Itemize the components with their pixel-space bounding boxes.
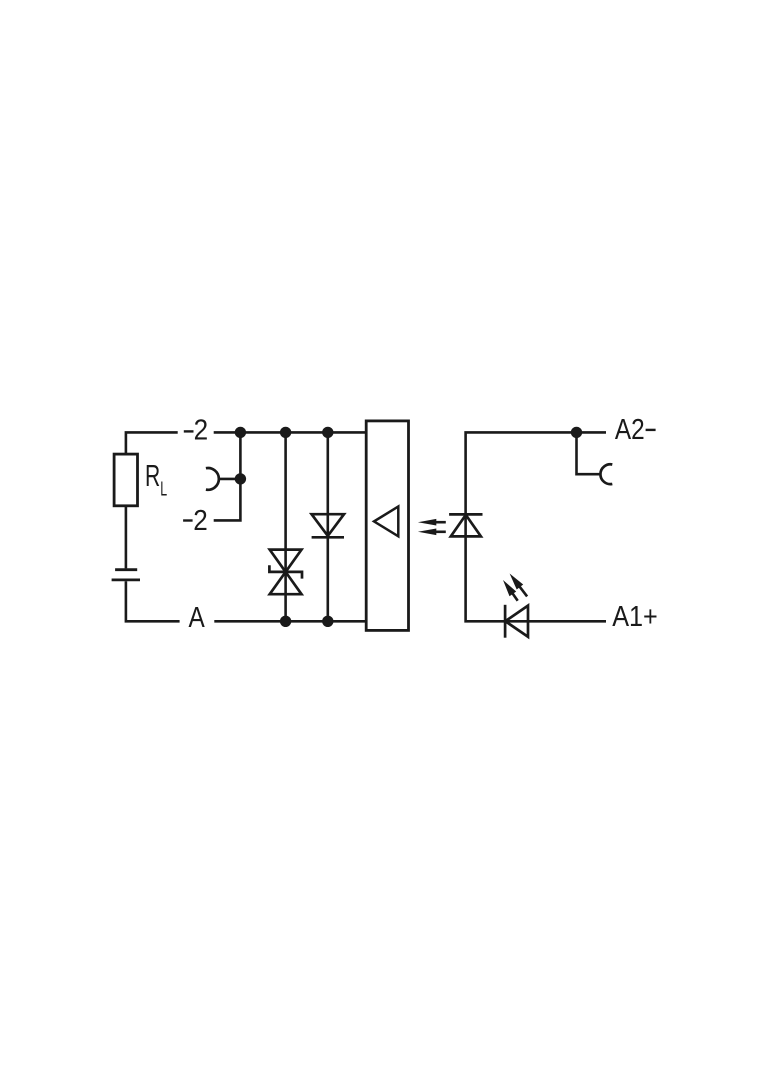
label RL [145, 458, 167, 500]
TVS suppressor diode (bidirectional) [269, 550, 302, 595]
node: dot diode top [322, 427, 333, 438]
LED emission arrow left (pointing up-left) [503, 580, 518, 601]
node: dot TVS top [280, 427, 291, 438]
svg-text:A1+: A1+ [612, 599, 658, 632]
node: dot TVS bottom [280, 616, 291, 627]
wire: TVS branch vertical [284, 432, 287, 621]
wire: stub from A2 junction down to socket arc [577, 432, 601, 474]
node: junction dot A2 [571, 427, 582, 438]
wire: top bus from label to optocoupler box [214, 431, 367, 434]
label A2- : dash [646, 429, 656, 431]
battery plate long (bottom) [112, 579, 140, 582]
wire: top-left horizontal + left vertical down to resistor [126, 432, 178, 454]
wire: bottom bus from label A to optocoupler box [214, 620, 366, 623]
socket contact arc (right, opening right) [600, 464, 612, 484]
label A [189, 601, 205, 633]
optocoupler LED on vertical wire, cathode bar up [449, 514, 482, 536]
diode (freewheeling), cathode down [312, 514, 344, 537]
node: dot diode bottom [322, 616, 333, 627]
LED emission arrow right (pointing up-left) [510, 574, 527, 597]
resistor RL [114, 454, 137, 506]
label A2- : letters [615, 413, 645, 445]
indicator LED on bottom wire, pointing left [505, 605, 528, 638]
label A1+ [612, 599, 658, 632]
label -2 (lower): digit [193, 504, 208, 537]
node: junction dot at socket stub [235, 473, 246, 484]
svg-text:2: 2 [193, 504, 208, 537]
wire: battery to bottom-left corner and right to label A [126, 581, 180, 621]
light arrow lower (pointing left) [418, 529, 446, 536]
battery plate short (top) [115, 568, 137, 571]
wire: right circuit C-shape (A2- top, vertical, A1+ bottom) [466, 432, 606, 621]
svg-text:A: A [189, 601, 205, 633]
photodetector triangle inside box [374, 507, 398, 537]
node: junction dot top bus x=240 [235, 427, 246, 438]
wire: resistor bottom to battery [125, 506, 128, 569]
wire: vertical branch from top bus down to lower -2 stub [214, 432, 241, 520]
svg-text:L: L [160, 478, 167, 501]
svg-text:2: 2 [194, 413, 209, 446]
svg-text:R: R [145, 458, 160, 493]
wire: stub from socket arc to junction [219, 478, 241, 481]
wire: diode branch vertical [326, 432, 329, 621]
light arrow upper (pointing left) [418, 519, 446, 526]
svg-text:A2: A2 [615, 413, 645, 445]
label -2 (top): dash [184, 430, 194, 432]
optocoupler box U1 [366, 421, 408, 631]
socket contact arc (left, opening left) [206, 468, 219, 490]
label -2 (top): digit [194, 413, 209, 446]
label -2 (lower): dash [183, 519, 193, 521]
